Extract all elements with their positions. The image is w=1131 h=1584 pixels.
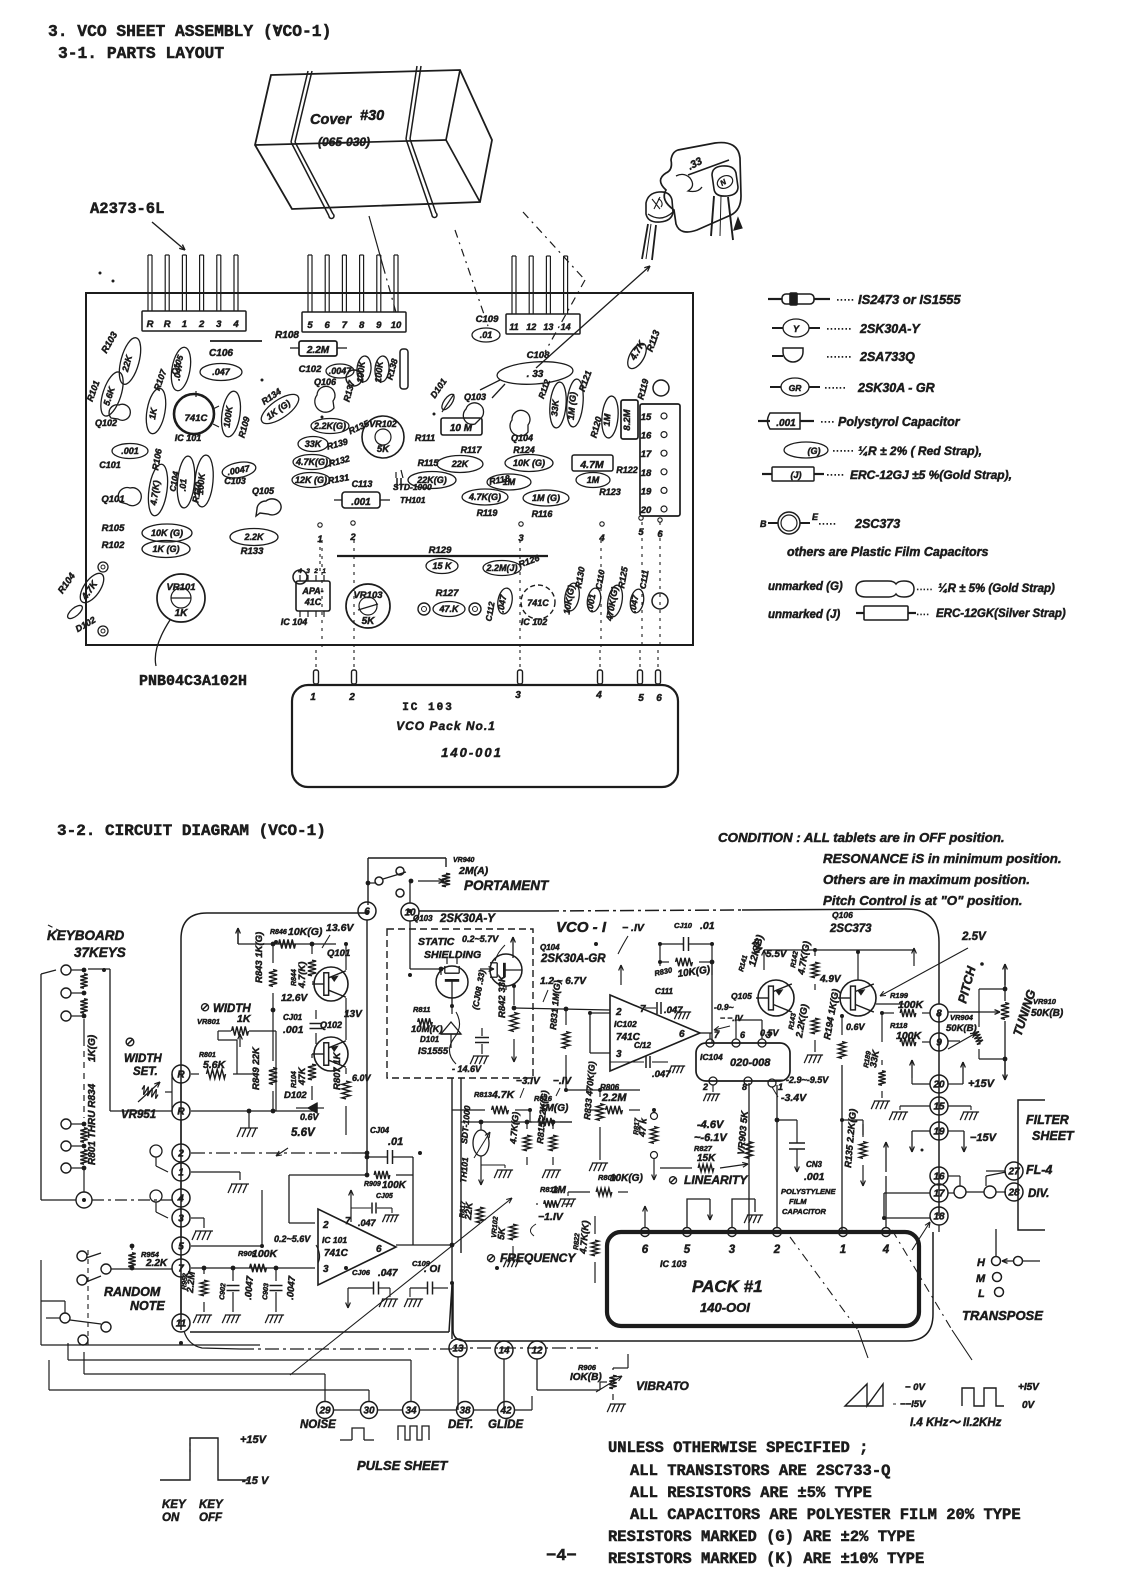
- ground C903: [265, 1315, 282, 1323]
- svg-text:2.2M: 2.2M: [306, 345, 330, 356]
- ground below Q102 area: [237, 1128, 256, 1137]
- enclosure top right chain: [419, 910, 545, 912]
- svg-text:SET.: SET.: [133, 1066, 158, 1078]
- trunk wire segments: [180, 1083, 182, 1102]
- svg-text:······: ······: [824, 382, 846, 394]
- svg-text:10: 10: [391, 320, 402, 331]
- svg-text:1: 1: [322, 568, 326, 575]
- random note switch 1: [77, 1251, 87, 1261]
- svg-text:3: 3: [515, 690, 521, 701]
- wire FET interconnect: [440, 969, 442, 975]
- svg-text:22K: 22K: [451, 459, 470, 469]
- svg-text:37KEYS: 37KEYS: [74, 945, 126, 960]
- svg-text:16: 16: [933, 1172, 945, 1183]
- capacitor CN3 .001: [789, 1142, 805, 1144]
- node 3: [172, 1209, 190, 1227]
- svg-text:D102: D102: [284, 1090, 307, 1101]
- svg-text:Others are in maximum position: Others are in maximum position.: [823, 872, 1030, 887]
- svg-text:·····: ·····: [836, 294, 854, 306]
- svg-text:741C: 741C: [324, 1248, 349, 1259]
- svg-text:R801 THRU R834: R801 THRU R834: [87, 1083, 98, 1165]
- node 20: [930, 1075, 948, 1093]
- svg-text:C106: C106: [209, 348, 233, 359]
- cover leader line 2: [455, 230, 488, 326]
- svg-text:IC 104: IC 104: [281, 617, 308, 627]
- svg-text:⊘: ⊘: [125, 1034, 136, 1049]
- svg-text:2: 2: [322, 1220, 329, 1231]
- svg-text:C108: C108: [527, 350, 550, 361]
- svg-text:SHEET: SHEET: [1032, 1129, 1075, 1143]
- svg-text:C109: C109: [476, 314, 499, 325]
- keyboard bottom junction: [76, 1192, 92, 1208]
- hook wire pin3: [732, 1199, 755, 1227]
- svg-text:FILTER: FILTER: [1026, 1113, 1069, 1127]
- enclosure bottom left boundary: [190, 1331, 449, 1333]
- svg-text:Q103: Q103: [464, 392, 486, 402]
- svg-text:R846: R846: [270, 929, 287, 936]
- enclosure left edge lower: [180, 1060, 182, 1330]
- svg-text:.001: .001: [351, 497, 371, 508]
- svg-text:7: 7: [178, 1264, 184, 1275]
- svg-text:R906: R906: [578, 1363, 597, 1372]
- legend 2SK30A-GR: [770, 386, 781, 388]
- arrow up into 18: [912, 1222, 930, 1250]
- svg-text:1.2 ~ 6.7V: 1.2 ~ 6.7V: [540, 976, 587, 987]
- svg-text:+I5V: +I5V: [1018, 1382, 1040, 1393]
- svg-text:2: 2: [177, 1149, 184, 1160]
- svg-text:LINEARITY: LINEARITY: [684, 1173, 748, 1187]
- node 6: [358, 902, 376, 920]
- svg-text:FL-4: FL-4: [1026, 1163, 1052, 1177]
- svg-text:R117: R117: [461, 445, 483, 455]
- resistor R136 R137 pair: [356, 355, 372, 382]
- svg-text:IS2473 or IS1555: IS2473 or IS1555: [858, 292, 961, 307]
- svg-text:47 k: 47 k: [637, 1117, 650, 1138]
- svg-text:~-6.1V: ~-6.1V: [694, 1132, 728, 1144]
- node 7: [172, 1259, 190, 1277]
- svg-text:PORTAMENT: PORTAMENT: [464, 878, 550, 893]
- svg-text:140-OOI: 140-OOI: [700, 1300, 750, 1315]
- svg-text:SHIELDING: SHIELDING: [424, 949, 481, 961]
- svg-text:5.6K: 5.6K: [203, 1059, 227, 1071]
- wire 18 down: [938, 1225, 940, 1232]
- svg-text:18: 18: [933, 1212, 945, 1223]
- wire CN3 stem: [777, 1119, 797, 1121]
- keyboard resistor chain R801-R834: [80, 974, 87, 989]
- svg-text:0.6V: 0.6V: [846, 1022, 866, 1032]
- svg-text:VR103: VR103: [353, 590, 383, 601]
- svg-text:- 14.6V: - 14.6V: [452, 1064, 482, 1074]
- wire Q106 emitter to pins: [876, 1003, 904, 1005]
- svg-text:L: L: [978, 1288, 985, 1300]
- ground IC104 pin2: [712, 1085, 714, 1092]
- svg-text:13: 13: [543, 322, 553, 332]
- tuning pot VR910: [1001, 1003, 1009, 1020]
- svg-text:14: 14: [498, 1346, 510, 1357]
- svg-text:2: 2: [348, 692, 355, 703]
- keyboard dashes: [48, 925, 62, 932]
- wires node19: [912, 1130, 930, 1132]
- svg-text:4: 4: [177, 1194, 184, 1205]
- svg-text:IOK(B): IOK(B): [570, 1372, 602, 1383]
- svg-text:47K: 47K: [297, 1066, 308, 1086]
- svg-text:unmarked (J): unmarked (J): [768, 609, 840, 621]
- board hole top right: [653, 380, 669, 396]
- svg-text:+15V: +15V: [240, 1434, 268, 1446]
- svg-text:PULSE SHEET: PULSE SHEET: [357, 1458, 448, 1473]
- svg-text:ALL CAPACITORS ARE POLYESTER F: ALL CAPACITORS ARE POLYESTER FILM 20% TY…: [630, 1506, 1021, 1524]
- resistor R109: [219, 390, 243, 438]
- svg-text:7: 7: [640, 1004, 646, 1015]
- pack1 pins: [641, 1228, 650, 1237]
- node 16: [930, 1167, 948, 1185]
- board hole bottom right: [652, 593, 668, 609]
- ground C112: [668, 1066, 683, 1073]
- pack1 box: [607, 1232, 919, 1326]
- svg-text:1M: 1M: [601, 413, 612, 427]
- svg-text:2.2M: 2.2M: [601, 1092, 627, 1104]
- resistor R119b: [462, 489, 508, 505]
- enclosure top edge: [181, 913, 367, 1060]
- svg-text:1: 1: [778, 1082, 783, 1092]
- wire 16 to 27: [948, 1175, 960, 1177]
- svg-text:1: 1: [178, 1168, 184, 1179]
- svg-text:2SK30A-Y: 2SK30A-Y: [859, 322, 921, 336]
- svg-text:IS1555: IS1555: [418, 1046, 449, 1057]
- svg-text:2.2M: 2.2M: [185, 1270, 198, 1294]
- svg-text:IC104: IC104: [700, 1052, 723, 1062]
- diode D101 circuit: [441, 1022, 461, 1034]
- wire node6 down: [366, 920, 368, 1175]
- ground C902: [222, 1315, 239, 1323]
- svg-text:NOISE: NOISE: [300, 1419, 336, 1431]
- svg-text:− .IV: − .IV: [622, 922, 645, 934]
- svg-text:3: 3: [518, 533, 524, 544]
- svg-text:2SK30A-GR: 2SK30A-GR: [540, 953, 606, 965]
- svg-text:6: 6: [325, 320, 331, 331]
- svg-text:2M(A): 2M(A): [458, 865, 489, 877]
- svg-text:5.5V: 5.5V: [766, 949, 788, 960]
- wire IC104 pin6 up: [735, 1020, 737, 1039]
- node 5: [172, 1237, 190, 1255]
- legend quarter-watt red strap: [784, 442, 828, 458]
- IC101 741C: [174, 394, 214, 434]
- wire 14 vibrato: [536, 1372, 538, 1390]
- node 12: [528, 1341, 546, 1359]
- arrow down TH101: [480, 1165, 482, 1185]
- svg-text:020-008: 020-008: [730, 1057, 771, 1069]
- svg-text:C113: C113: [352, 479, 373, 489]
- svg-text:R: R: [177, 1070, 185, 1081]
- svg-text:3: 3: [729, 1244, 736, 1256]
- svg-text:R115: R115: [418, 458, 440, 468]
- ground CJ05: [382, 1215, 397, 1222]
- IC102 741C: [521, 585, 555, 619]
- svg-text:Polystyrol Capacitor: Polystyrol Capacitor: [838, 415, 961, 429]
- svg-text:R105: R105: [102, 523, 125, 534]
- svg-text:− 0V: − 0V: [905, 1382, 925, 1393]
- pin header CN3: [506, 314, 580, 334]
- svg-text:STD-1000: STD-1000: [393, 482, 432, 492]
- svg-text:4.7K(G): 4.7K(G): [295, 457, 328, 467]
- svg-text:3: 3: [216, 319, 222, 330]
- svg-text:ERC-12GJ ±5 %(Gold Strap),: ERC-12GJ ±5 %(Gold Strap),: [850, 468, 1012, 482]
- svg-text:10M(K): 10M(K): [411, 1024, 443, 1035]
- svg-text:4.7K: 4.7K: [491, 1089, 516, 1101]
- node 19: [930, 1122, 948, 1140]
- svg-text:4.7M: 4.7M: [579, 459, 604, 471]
- svg-text:STATIC: STATIC: [418, 936, 455, 948]
- IC104 pins top: [706, 1039, 714, 1047]
- svg-text:KEY: KEY: [199, 1499, 224, 1511]
- svg-text:VR102: VR102: [369, 419, 397, 429]
- resistor R135: [311, 419, 349, 434]
- transistor sketch leg arrowhead: [734, 218, 742, 230]
- wire R135 stub: [842, 1119, 863, 1121]
- svg-text:GR: GR: [789, 383, 803, 393]
- svg-text:PNB04C3A102H: PNB04C3A102H: [139, 673, 247, 690]
- svg-text:IC102: IC102: [614, 1019, 637, 1029]
- svg-text:PACK #1: PACK #1: [692, 1277, 763, 1296]
- svg-text:Q102: Q102: [95, 418, 117, 428]
- node 15: [930, 1097, 948, 1115]
- svg-text:····: ····: [916, 609, 929, 620]
- wire 17 hook: [884, 1192, 930, 1194]
- svg-text:2: 2: [198, 319, 205, 330]
- svg-text:+15V: +15V: [968, 1078, 996, 1090]
- feedback rail vertical: [412, 1157, 414, 1245]
- svg-text:IC 103: IC 103: [660, 1259, 687, 1269]
- svg-text:10K (G): 10K (G): [151, 528, 183, 538]
- resistor R113 8.2M: [621, 400, 638, 439]
- svg-text:2: 2: [702, 1082, 708, 1092]
- pitch wire node8: [948, 1011, 980, 1013]
- resistor R131: [292, 473, 330, 488]
- wire +15V: [911, 1060, 913, 1078]
- wire R to Q102 base: [191, 1110, 314, 1112]
- board hole mid: [346, 370, 362, 386]
- svg-text:.001: .001: [121, 446, 139, 456]
- svg-text:R133: R133: [241, 546, 264, 557]
- svg-text:100K: 100K: [195, 471, 207, 495]
- svg-text:R102: R102: [102, 540, 125, 551]
- bus line pcb: [337, 555, 548, 557]
- svg-text:1M (G): 1M (G): [532, 493, 560, 503]
- svg-text:8: 8: [742, 1082, 747, 1092]
- svg-text:0.5V: 0.5V: [760, 1028, 780, 1038]
- svg-text:2: 2: [615, 1007, 622, 1018]
- svg-text:R122: R122: [616, 465, 638, 475]
- svg-text:B: B: [760, 519, 767, 529]
- trimmer VR102: [362, 416, 404, 458]
- svg-text:.001: .001: [776, 418, 796, 429]
- ground R809: [567, 1192, 569, 1196]
- svg-text:2.2K: 2.2K: [243, 532, 265, 542]
- svg-text:CJ04: CJ04: [370, 1126, 390, 1135]
- svg-text:2.2M(J): 2.2M(J): [485, 563, 517, 573]
- sawtooth waveform: [845, 1384, 883, 1406]
- node R upper: [172, 1065, 190, 1083]
- svg-text:3-1. PARTS LAYOUT: 3-1. PARTS LAYOUT: [58, 44, 224, 63]
- svg-text:−.IV: −.IV: [553, 1076, 572, 1087]
- silk line: [210, 340, 262, 342]
- svg-text:Q103: Q103: [413, 914, 433, 923]
- random note switch 2: [77, 1275, 87, 1285]
- svg-text:FILM: FILM: [789, 1197, 807, 1206]
- legend polystyrol cap: [758, 420, 770, 422]
- squiggle CJ08: [449, 1012, 459, 1064]
- transistor sketch can 2: [712, 166, 738, 196]
- svg-text:−−I5V: −−I5V: [900, 1399, 926, 1410]
- svg-text:1: 1: [840, 1244, 846, 1256]
- wire Q106 collector rail: [857, 952, 859, 980]
- svg-text:Q106: Q106: [832, 910, 853, 920]
- svg-text:.0047: .0047: [285, 1275, 298, 1300]
- grounds CJ06: [379, 1299, 396, 1307]
- pcb bottom pins: [314, 670, 319, 684]
- svg-text:VR801: VR801: [197, 1017, 220, 1026]
- svg-text:Q102: Q102: [320, 1020, 342, 1030]
- legend diode IS2473: [768, 298, 782, 300]
- svg-text:140-001: 140-001: [441, 745, 503, 760]
- svg-text:-2.9~-9.5V: -2.9~-9.5V: [786, 1075, 829, 1085]
- hook wire pin5: [687, 1199, 710, 1227]
- svg-text:R801: R801: [199, 1052, 216, 1059]
- node 10: [401, 903, 419, 921]
- svg-text:C903: C903: [262, 1283, 270, 1300]
- ground R833: [589, 1163, 606, 1171]
- transistor Q106: [838, 980, 876, 1016]
- wires random note left: [40, 1260, 42, 1345]
- svg-text:APA-: APA-: [301, 586, 323, 596]
- keyboard left wire: [41, 970, 56, 974]
- svg-text:A2373-6L: A2373-6L: [90, 200, 164, 218]
- svg-text:GLIDE: GLIDE: [488, 1419, 523, 1431]
- bottom pins row: [317, 1402, 334, 1419]
- op-amp IC101: [318, 1209, 396, 1285]
- svg-text:3: 3: [616, 1049, 622, 1060]
- node 4: [172, 1189, 190, 1207]
- arrow 2.5V to Q106: [880, 948, 968, 996]
- svg-text:H: H: [977, 1257, 986, 1269]
- svg-text:NOTE: NOTE: [130, 1299, 165, 1313]
- svg-text:ON: ON: [162, 1512, 180, 1524]
- svg-text:. 33: . 33: [527, 369, 544, 380]
- svg-text:1K(G): 1K(G): [87, 1034, 98, 1062]
- svg-text:2SC373: 2SC373: [829, 923, 872, 935]
- legend ERC-12GJ: [762, 473, 772, 475]
- filter sheet bracket: [1018, 1100, 1045, 1230]
- svg-text:3-2. CIRCUIT DIAGRAM (VCO-1): 3-2. CIRCUIT DIAGRAM (VCO-1): [57, 822, 326, 840]
- wire node7 bus: [191, 1267, 315, 1269]
- svg-text:0.6V: 0.6V: [300, 1112, 320, 1122]
- wire 13 14 12 line: [452, 1347, 600, 1349]
- svg-text:R127: R127: [436, 588, 459, 599]
- node4 stub circle: [150, 1190, 162, 1202]
- svg-text:R129: R129: [429, 545, 452, 556]
- svg-text:-15 V: -15 V: [242, 1475, 270, 1487]
- svg-text:4: 4: [598, 533, 605, 544]
- svg-text:2: 2: [313, 568, 318, 575]
- svg-text:6: 6: [656, 693, 662, 704]
- random note switch 3: [60, 1313, 70, 1323]
- svg-text:10K(G): 10K(G): [610, 1173, 643, 1184]
- ground below node 3: [191, 1217, 204, 1219]
- svg-text:−15V: −15V: [970, 1132, 998, 1144]
- resistor R129: [426, 559, 458, 574]
- svg-text:¼R ± 2% ( Red Strap),: ¼R ± 2% ( Red Strap),: [858, 444, 982, 458]
- svg-text:R111: R111: [415, 433, 435, 443]
- cover leader line 3: [523, 212, 585, 280]
- svg-text:11: 11: [509, 322, 518, 332]
- svg-text:15K: 15K: [697, 1153, 716, 1164]
- svg-text:4.9V: 4.9V: [819, 974, 842, 985]
- svg-text:CAPACITOR: CAPACITOR: [782, 1207, 826, 1216]
- svg-text:C102: C102: [299, 364, 322, 375]
- svg-text:5: 5: [307, 320, 313, 331]
- resistor R133: [230, 529, 278, 546]
- svg-text:22K: 22K: [463, 1201, 476, 1221]
- svg-text:VR940: VR940: [453, 857, 475, 864]
- arrow Q104 drain up: [512, 937, 514, 958]
- svg-text:R843 1K(G): R843 1K(G): [254, 932, 265, 983]
- resistor R123: [576, 473, 610, 488]
- svg-text:1K: 1K: [237, 1013, 252, 1025]
- potentiometer VR940 portament: [442, 873, 450, 886]
- wire pack pin1 up: [842, 1120, 844, 1227]
- svg-text:4.7K(G): 4.7K(G): [468, 492, 501, 502]
- grounds node15: [900, 1105, 930, 1107]
- resistor R122: [572, 455, 613, 471]
- small circles node17: [954, 1186, 966, 1198]
- svg-text:Q105: Q105: [252, 486, 275, 496]
- arrow into Q104 gate: [480, 968, 494, 970]
- svg-text:5: 5: [178, 1242, 184, 1253]
- IC104 020-008: [696, 1043, 790, 1081]
- random note switch 4: [78, 1335, 88, 1345]
- svg-text:.047: .047: [358, 1218, 377, 1228]
- svg-text:19: 19: [641, 486, 652, 497]
- svg-text:CJ10: CJ10: [674, 921, 693, 930]
- svg-text:Cover: Cover: [310, 112, 352, 128]
- svg-text:RESISTORS MARKED (G) ARE ±2% T: RESISTORS MARKED (G) ARE ±2% TYPE: [608, 1528, 915, 1546]
- wire TH network top rail: [461, 1121, 572, 1123]
- svg-text:.047: .047: [212, 367, 231, 377]
- svg-text:7: 7: [345, 1216, 351, 1227]
- pitch trim loop: [979, 988, 1005, 990]
- pack outer boundary: [453, 1232, 933, 1341]
- ground vibrato: [607, 1404, 624, 1412]
- dash-dot line from node 2: [191, 1152, 352, 1154]
- svg-text:10 M: 10 M: [450, 423, 473, 434]
- svg-text:15: 15: [641, 412, 652, 423]
- svg-text:6: 6: [657, 529, 663, 540]
- svg-text:VR101: VR101: [166, 582, 195, 593]
- cover leader line 1: [369, 216, 383, 266]
- svg-text:C103: C103: [224, 476, 246, 486]
- svg-text:R: R: [147, 319, 154, 330]
- svg-text:30: 30: [363, 1406, 375, 1417]
- svg-text:RESONANCE iS in minimum positi: RESONANCE iS in minimum position.: [823, 851, 1062, 866]
- wire vertical from shielding left: [451, 1078, 453, 1339]
- wire Q104 drain rail: [514, 1008, 610, 1010]
- svg-text:-0.9~: -0.9~: [714, 1002, 734, 1012]
- wire below nodes 13 14 12: [457, 1357, 459, 1410]
- svg-text:1: 1: [310, 692, 316, 703]
- svg-text:100K: 100K: [382, 1180, 407, 1191]
- svg-text:13V: 13V: [344, 1009, 363, 1020]
- svg-text:6: 6: [376, 1244, 382, 1255]
